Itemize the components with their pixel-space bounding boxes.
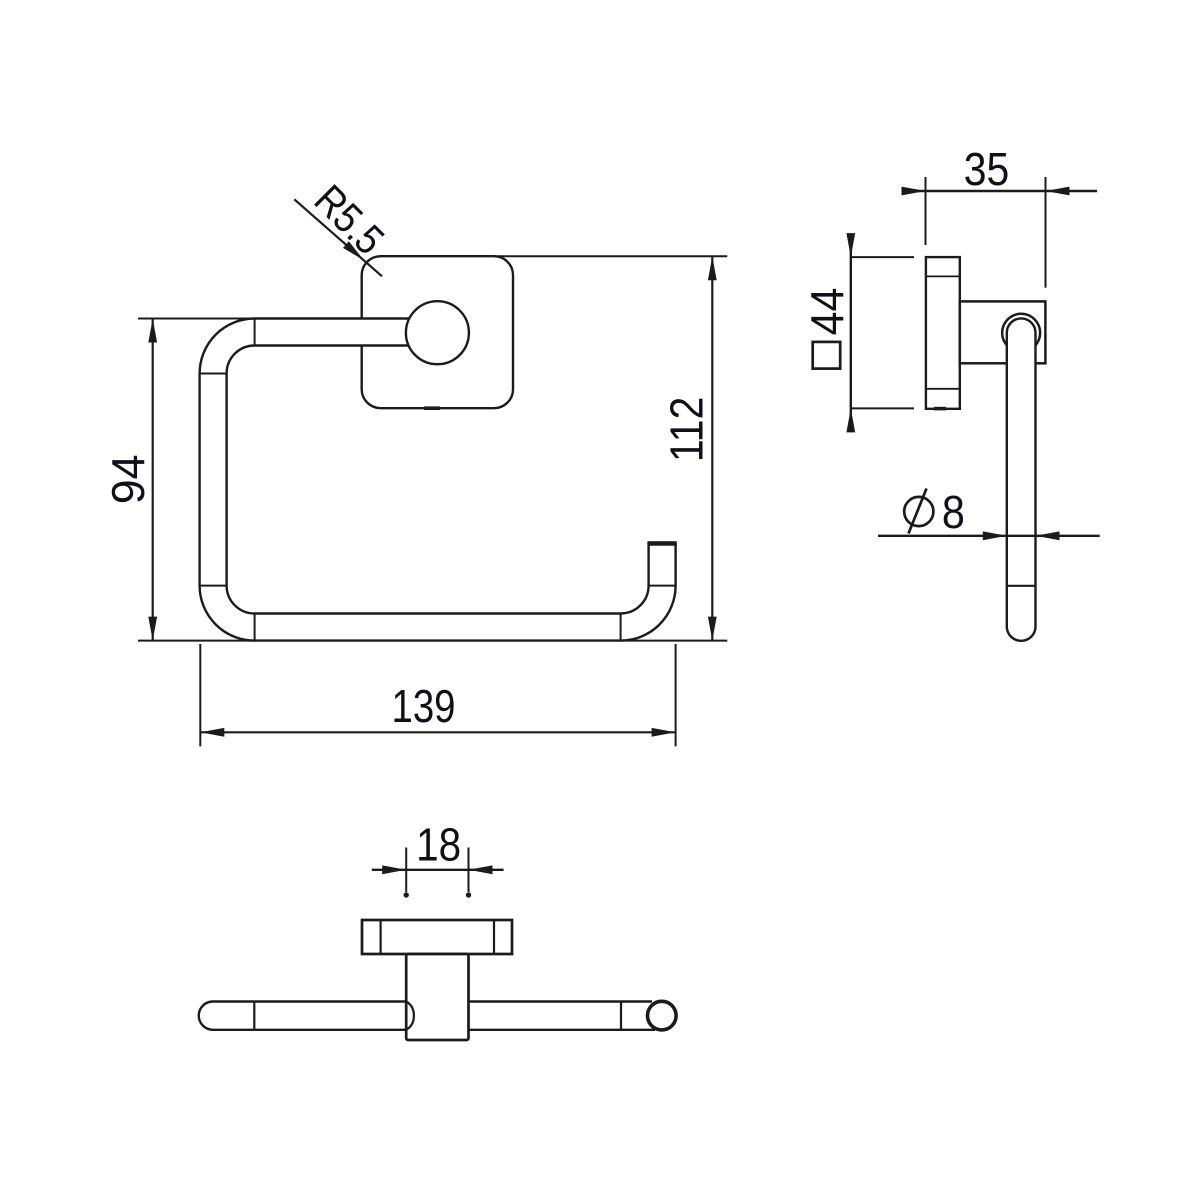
dimension 139 arrow left [200,728,224,737]
dimension 44 extension bottom [852,407,915,409]
radius label R5.5 [306,176,394,264]
dimension 112 arrow up [708,256,717,280]
dimension 35 extension right [1045,177,1047,288]
dimension 112 extension bottom [618,640,727,642]
front view collar circle [406,301,469,364]
bottom view mounting flange [362,920,512,954]
square symbol for 44 [813,342,841,369]
dimension 18 extension left [405,848,407,893]
flange right corner line [493,920,495,954]
side view holder body [960,301,1046,363]
dimension 44 text [801,288,853,336]
side view hanging bar [1007,318,1036,640]
side plate top corner line [926,275,960,277]
bottom bar right separator [620,1002,622,1030]
dimension 18 line [372,869,504,871]
dimension 112 text [661,397,713,463]
ring bar tangent separator top-left vertical [254,319,256,346]
dimension 18 dot left [404,892,409,897]
ring bar tangent separator hook horizontal [649,585,676,587]
dimension 44 line [850,235,852,429]
radius leader R5.5 arrowhead [343,241,364,260]
dimension dia8 arrow right [1036,531,1060,540]
radius leader R5.5 line [294,199,382,276]
dimension 35 arrow right [1046,187,1070,196]
svg-text:44: 44 [801,288,853,336]
diameter symbol slash [909,489,927,534]
svg-text:35: 35 [964,143,1010,195]
front view wall plate [362,256,513,408]
bottom bar left-mid top line [254,1000,406,1002]
dimension 112 extension top [494,255,727,257]
side view collar circle [1002,314,1040,352]
dimension 112 line [711,256,713,640]
front view ring bar [200,319,676,641]
dimension 18 arrow left [382,865,406,874]
dimension 94 extension bottom [138,640,256,642]
dimension 44 arrow top [846,233,855,257]
dimension 94 arrow up [148,319,157,343]
side bar joint line [1007,585,1036,587]
bottom bar left-mid bottom line [254,1029,406,1031]
svg-text:18: 18 [416,819,461,871]
dimension 139 line [200,731,675,733]
dimension 94 line [152,319,154,641]
bottom bar end circle [648,1001,677,1030]
svg-text:8: 8 [942,486,965,538]
ring bar tangent separator bottom-left horizontal [200,585,227,587]
bottom bar right-mid top line [469,1000,653,1002]
dimension 35 extension left [925,177,927,245]
dimension 94 arrow down [148,617,157,641]
dimension 18 dot right [466,892,471,897]
ring bar tangent separator hook bottom vertical [620,614,622,641]
dimension 139 extension right [675,644,677,746]
side view wall plate [926,257,960,409]
svg-text:94: 94 [102,455,154,505]
dimension dia8 arrow left [983,531,1007,540]
side plate bottom tick [934,407,946,411]
svg-text:R5.5: R5.5 [306,176,394,264]
dimension 94 text [102,455,154,505]
front plate bottom tick [424,406,440,410]
bottom bar left separator [253,1002,255,1030]
hook end cap [647,541,676,545]
dimension 35 arrow left [902,187,926,196]
bottom view bend bulge arc [406,1002,414,1030]
dimension 35 line [903,190,1097,192]
ring bar tangent separator bottom-left vertical [254,614,256,641]
dimension 18 arrow right [469,865,493,874]
diameter symbol circle [904,497,933,526]
dimension 94 extension top [138,318,256,320]
bottom bar right-mid bottom line [469,1029,656,1031]
flange left corner line [380,920,382,954]
ring bar tangent separator top-left horizontal [200,373,227,375]
bottom view bar left segment [199,1002,255,1030]
dimension 139 arrow right [652,728,676,737]
dimension 112 arrow down [708,617,717,641]
svg-text:139: 139 [392,680,456,732]
dimension 18 extension right [468,848,470,893]
dimension dia8 line [878,535,1100,537]
dimension 44 extension top [852,256,915,258]
svg-text:112: 112 [661,397,713,463]
dimension 44 arrow bottom [846,408,855,432]
dimension 139 extension left [199,644,201,746]
side plate bottom corner line [926,388,960,390]
bottom view neck [406,954,468,1040]
